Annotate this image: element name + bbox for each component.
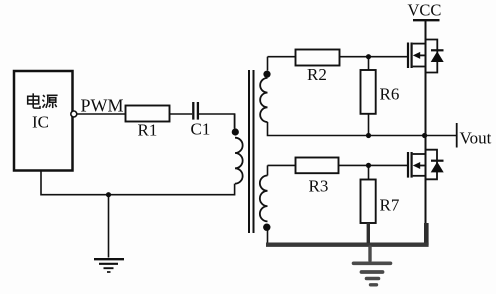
svg-text:IC: IC xyxy=(32,112,49,131)
svg-text:R2: R2 xyxy=(307,65,327,84)
svg-text:Vout: Vout xyxy=(460,129,492,148)
svg-text:VCC: VCC xyxy=(408,1,442,20)
svg-text:C1: C1 xyxy=(191,120,211,139)
svg-text:PWM: PWM xyxy=(81,96,124,116)
svg-text:R6: R6 xyxy=(380,85,400,104)
svg-text:R7: R7 xyxy=(380,196,400,215)
svg-text:R3: R3 xyxy=(309,177,329,196)
svg-text:R1: R1 xyxy=(138,121,158,140)
